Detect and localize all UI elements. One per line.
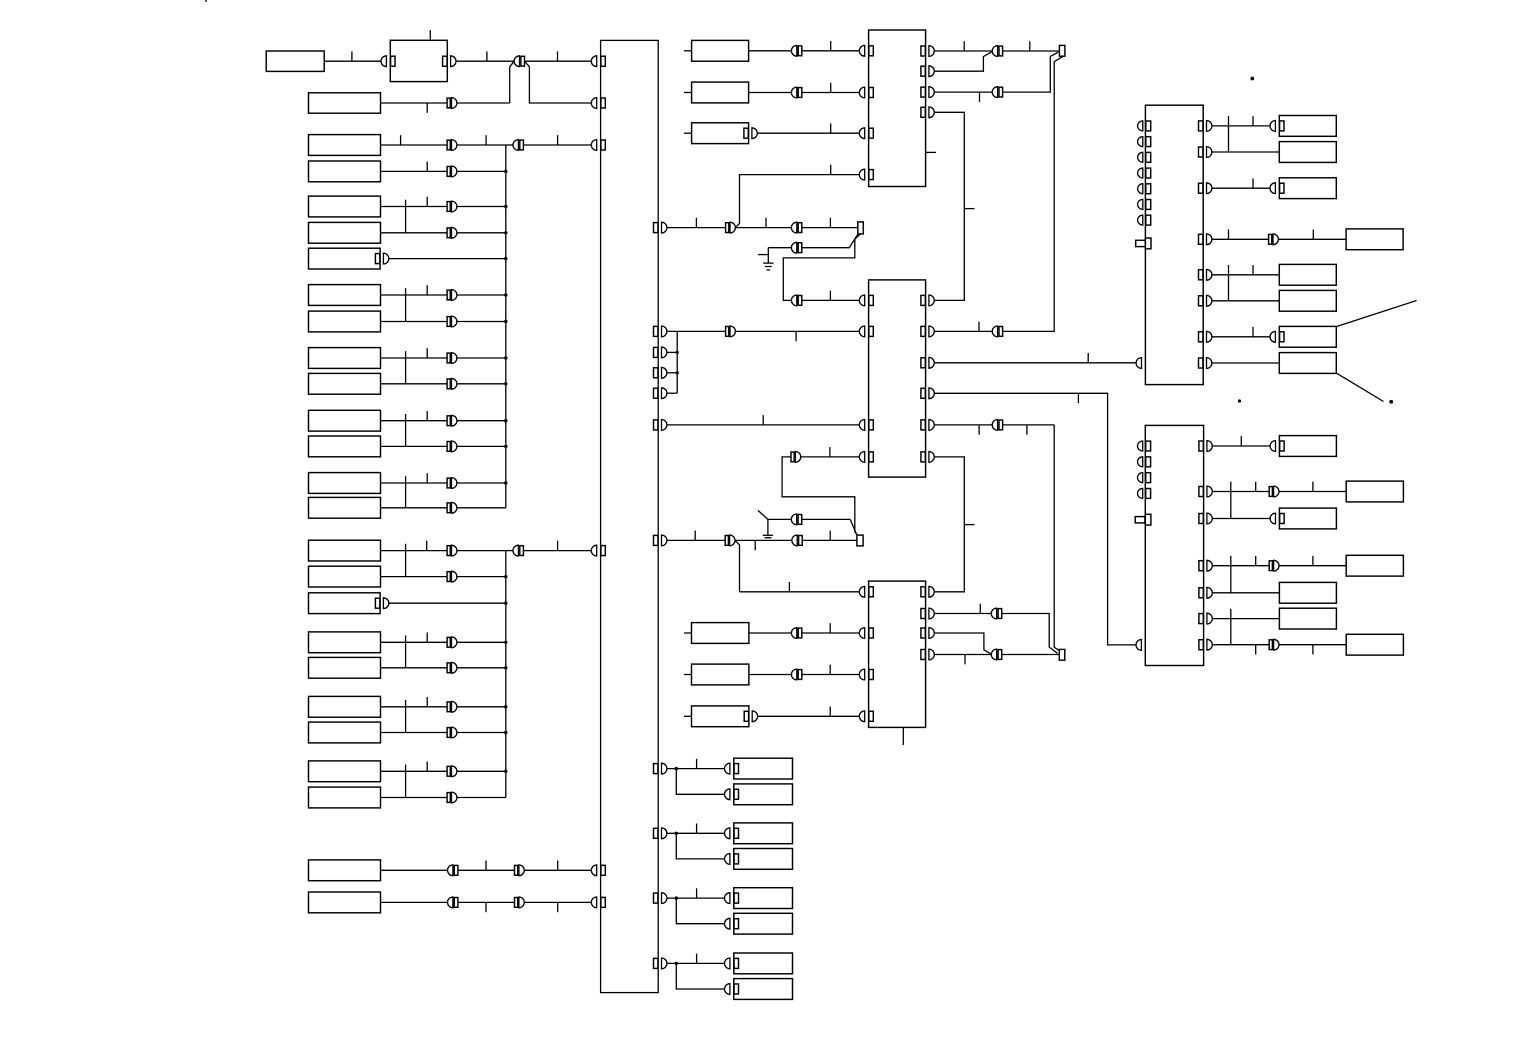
component box (lamp) xyxy=(734,979,793,1000)
pin U3 left xyxy=(859,711,864,722)
wire tick xyxy=(964,524,974,526)
wire tick xyxy=(696,954,698,964)
wire tick xyxy=(964,208,974,210)
wire pair-link xyxy=(405,351,407,384)
wire pair-link xyxy=(1228,116,1230,152)
pin U2 right xyxy=(921,388,925,398)
pin U3 left xyxy=(859,628,864,639)
connector block U4 xyxy=(1145,105,1203,384)
connector pair xyxy=(447,140,450,150)
wire xyxy=(389,258,506,260)
junction xyxy=(676,371,679,374)
wire xyxy=(381,482,448,484)
wire xyxy=(381,144,448,146)
wire xyxy=(667,962,725,964)
wire branch xyxy=(676,769,724,795)
wire tick xyxy=(400,135,402,145)
junction xyxy=(675,832,678,835)
wire xyxy=(457,797,506,799)
wire branch X1 left xyxy=(510,61,515,103)
wire xyxy=(1212,644,1269,646)
wire xyxy=(1212,618,1279,620)
wire tick xyxy=(1255,556,1257,566)
component box xyxy=(309,473,381,494)
pin U5 right xyxy=(1199,561,1203,571)
wire xyxy=(676,331,678,393)
connector pair xyxy=(447,317,450,327)
wire tick xyxy=(963,41,965,51)
wire tick xyxy=(426,411,428,421)
component box (lamp) xyxy=(734,784,793,805)
component box xyxy=(309,222,381,243)
wire stub xyxy=(684,674,692,676)
wire pair-link xyxy=(1228,265,1230,301)
pin J/B left xyxy=(591,897,596,908)
component box M3 xyxy=(692,123,749,144)
connector pair xyxy=(447,546,450,556)
wire xyxy=(934,654,991,656)
wire tick xyxy=(829,665,831,675)
wire xyxy=(934,613,991,615)
connector pair xyxy=(791,514,796,525)
splice S2b xyxy=(857,535,863,546)
wire tick xyxy=(485,861,487,871)
wire pair-link xyxy=(405,636,407,668)
wire tick xyxy=(695,218,697,228)
pin U2 right xyxy=(921,452,925,462)
pin J/B left xyxy=(591,865,596,876)
pin U2 right xyxy=(921,326,925,336)
pin U4 left 4 xyxy=(1138,168,1143,178)
wire xyxy=(381,732,448,734)
wire xyxy=(1278,238,1346,240)
wire xyxy=(457,706,506,708)
wire xyxy=(457,206,506,208)
pin U2 left xyxy=(859,452,864,463)
pin U5 right xyxy=(1199,640,1203,650)
wire tick xyxy=(485,135,487,145)
connector pair xyxy=(448,897,453,908)
junction xyxy=(504,419,507,422)
pin J/B right xyxy=(654,420,658,430)
wire xyxy=(1003,50,1060,52)
pin U5 right xyxy=(1199,588,1203,598)
wire xyxy=(523,144,591,146)
ECU box U2 xyxy=(869,280,926,477)
splice S1 xyxy=(1059,45,1065,56)
wire xyxy=(768,247,791,249)
wire stub U1 right xyxy=(926,151,936,153)
wire xyxy=(1212,300,1279,302)
component box xyxy=(309,161,381,182)
wire tick xyxy=(762,415,764,425)
wire tick xyxy=(1252,327,1254,337)
wire xyxy=(1054,425,1059,651)
connector pair xyxy=(791,242,796,253)
junction xyxy=(504,170,507,173)
junction xyxy=(504,481,507,484)
wire xyxy=(801,456,860,458)
pin U5 left 3 xyxy=(1138,473,1143,483)
wire xyxy=(458,901,515,903)
wire tick xyxy=(351,51,353,61)
pin lamp left xyxy=(724,984,729,995)
component box (lamp) xyxy=(734,823,793,844)
component box xyxy=(1346,481,1403,502)
wire pair-link xyxy=(405,476,407,508)
wire stub xyxy=(684,50,692,52)
pin lamp left xyxy=(725,854,730,865)
connector pair xyxy=(791,222,796,233)
pin U4 right xyxy=(1199,332,1203,342)
pin U1 right xyxy=(921,87,925,97)
junction xyxy=(504,257,507,260)
wire pair-link xyxy=(405,200,407,233)
wire tick xyxy=(758,254,768,256)
component box xyxy=(1279,353,1336,374)
connector pair xyxy=(791,669,796,680)
wire xyxy=(457,420,506,422)
component box M1 xyxy=(692,40,749,61)
wire tick xyxy=(557,902,559,912)
wire xyxy=(934,112,964,300)
wire xyxy=(457,770,506,772)
wire xyxy=(757,132,859,134)
wire xyxy=(802,674,860,676)
wire xyxy=(381,667,448,669)
pin U4 right xyxy=(1199,183,1203,193)
pin J/B right xyxy=(654,893,658,903)
wire branch X1 right xyxy=(525,61,592,103)
wire branch S1-a xyxy=(1003,52,1059,92)
connector pair xyxy=(447,416,450,426)
pin U5 right xyxy=(1199,441,1203,451)
wire xyxy=(457,321,506,323)
pin load left xyxy=(1270,121,1275,132)
component box B2 (relay) xyxy=(390,40,447,81)
wire tick xyxy=(1312,556,1314,566)
wire tick xyxy=(426,348,428,358)
connector pair X1 xyxy=(514,56,519,67)
junction xyxy=(504,293,507,296)
wire xyxy=(457,357,506,359)
terminal stub U5 left xyxy=(1135,517,1145,523)
wire collector xyxy=(505,551,507,798)
pin U2 right xyxy=(921,295,925,305)
component box xyxy=(309,657,381,678)
connector pair xyxy=(447,572,450,582)
component box xyxy=(1279,264,1336,285)
component box (lamp) xyxy=(734,953,793,974)
pin U5 left xyxy=(1136,640,1141,651)
wire xyxy=(735,175,859,228)
component box xyxy=(1279,436,1336,457)
connector pair xyxy=(1269,234,1272,244)
pin U4 right xyxy=(1199,147,1203,157)
wire tick xyxy=(426,162,428,172)
connector pair xyxy=(447,702,450,712)
wire xyxy=(667,768,725,770)
junction xyxy=(504,231,507,234)
connector pair xyxy=(447,379,450,389)
wire branch xyxy=(735,540,740,591)
splice S2 xyxy=(858,222,864,234)
component box xyxy=(1279,116,1336,137)
connector pair xyxy=(447,766,450,776)
wire tick xyxy=(486,51,488,61)
wire xyxy=(802,539,857,541)
wire xyxy=(381,420,448,422)
pin U2 right xyxy=(921,358,925,368)
wire xyxy=(1212,362,1279,364)
wire tick xyxy=(829,707,831,717)
pin lamp left xyxy=(725,763,730,774)
dot marker xyxy=(1238,399,1241,402)
wire tick xyxy=(1255,645,1257,655)
wire stub xyxy=(684,92,692,94)
component box xyxy=(1279,142,1336,163)
connector pair xyxy=(791,87,796,98)
wire xyxy=(381,507,448,509)
component box B1 xyxy=(266,51,324,71)
wire tick xyxy=(557,135,559,145)
wire xyxy=(1279,491,1346,493)
pin B2 right xyxy=(443,56,447,66)
wire xyxy=(457,507,506,509)
wire xyxy=(1212,125,1270,127)
component box (lamp) xyxy=(734,849,793,870)
pin U3 right xyxy=(921,609,925,619)
wire xyxy=(749,92,792,94)
pin U1 left xyxy=(859,45,864,56)
wire branch into S2b xyxy=(850,519,857,535)
wire tick xyxy=(765,218,767,228)
wire xyxy=(667,424,859,426)
component box xyxy=(309,410,381,431)
pin J/B left row B xyxy=(591,98,596,109)
wire stub xyxy=(684,132,692,134)
wire xyxy=(381,797,448,799)
wire xyxy=(457,550,506,552)
connector pair xyxy=(447,290,450,300)
connector pair xyxy=(447,728,450,738)
wire tick xyxy=(426,762,428,772)
component box xyxy=(1279,326,1336,347)
component box xyxy=(1279,508,1336,529)
wire tick xyxy=(426,473,428,483)
pin U5 left 4 xyxy=(1138,488,1143,498)
component box xyxy=(309,348,381,369)
wire tick xyxy=(829,447,831,457)
wire xyxy=(457,232,506,234)
component box xyxy=(1279,290,1336,311)
wire tick xyxy=(557,861,559,871)
wire tick xyxy=(964,655,966,665)
pin J/B right xyxy=(654,535,658,545)
pin U1 right xyxy=(921,46,925,56)
wire xyxy=(381,576,448,578)
pin U1 left xyxy=(859,128,864,139)
pin box right xyxy=(375,254,379,264)
ECU box U3 xyxy=(869,581,926,727)
wire xyxy=(458,869,515,871)
wire pair-link xyxy=(1230,482,1232,519)
wire tick xyxy=(1029,41,1031,51)
component box xyxy=(1279,178,1336,199)
pin U2 right xyxy=(921,420,925,430)
pin U1 left xyxy=(859,87,864,98)
component box xyxy=(1346,555,1403,576)
component box xyxy=(309,761,381,782)
pin U4 left 2 xyxy=(1138,137,1143,147)
junction xyxy=(504,382,507,385)
pin lamp left xyxy=(725,828,730,839)
wire tick xyxy=(1087,353,1089,363)
wire xyxy=(1212,491,1269,493)
wire xyxy=(767,519,769,535)
wire stub xyxy=(684,632,692,634)
splice S3 xyxy=(1059,649,1065,660)
wire xyxy=(457,576,506,578)
dot marker xyxy=(1389,400,1393,404)
wire xyxy=(667,897,725,899)
wire xyxy=(457,482,506,484)
component box xyxy=(309,860,381,881)
ground G2 xyxy=(763,534,773,536)
wire tick xyxy=(1077,393,1079,403)
pin U3 right xyxy=(921,628,925,638)
wire tick xyxy=(1252,178,1254,188)
wire tick xyxy=(829,623,831,633)
component box xyxy=(309,373,381,394)
junction xyxy=(504,602,507,605)
junction xyxy=(504,320,507,323)
component box (switch) xyxy=(309,248,381,269)
wire tick xyxy=(830,41,832,51)
wire xyxy=(1212,187,1270,189)
connector pair xyxy=(791,628,796,639)
wire xyxy=(381,357,448,359)
wire xyxy=(802,299,860,301)
connector pair xyxy=(791,295,796,306)
connector pair xyxy=(447,167,450,177)
component box xyxy=(309,696,381,717)
pin U4 right xyxy=(1199,234,1203,244)
wire xyxy=(1279,565,1346,567)
connector pair xyxy=(447,442,450,452)
wire xyxy=(934,393,1136,645)
junction xyxy=(676,351,679,354)
component box xyxy=(1279,582,1336,603)
wire pair-link xyxy=(405,288,407,321)
wire xyxy=(381,383,448,385)
component box xyxy=(309,497,381,518)
component box xyxy=(309,722,381,743)
wire tick xyxy=(426,697,428,707)
wire xyxy=(524,901,591,903)
connector pair xyxy=(447,503,450,513)
wire xyxy=(457,102,510,104)
wire xyxy=(1279,644,1346,646)
component box xyxy=(1346,634,1403,655)
wire tick xyxy=(829,218,831,228)
pin J/B left xyxy=(591,545,596,556)
component box (lamp) xyxy=(734,888,793,909)
connector pair xyxy=(991,608,996,619)
wire tick xyxy=(557,51,559,61)
connector pair xyxy=(726,223,729,233)
wire xyxy=(457,641,506,643)
component box M4 xyxy=(692,623,749,644)
component box M5 xyxy=(692,664,749,685)
wire tick xyxy=(426,285,428,295)
pin J/B left row A xyxy=(591,56,596,67)
pin J/B right xyxy=(654,958,658,968)
pin U4 right xyxy=(1199,296,1203,306)
wire xyxy=(389,602,506,604)
wire xyxy=(667,392,677,394)
wire tick xyxy=(1228,230,1230,240)
wire xyxy=(1002,614,1058,654)
dot marker xyxy=(1250,77,1254,81)
wire xyxy=(1003,424,1055,426)
connector pair xyxy=(1269,640,1272,650)
wire tick xyxy=(426,103,428,113)
pin lamp left xyxy=(725,893,730,904)
wire xyxy=(457,445,506,447)
component box xyxy=(309,436,381,457)
pin U4 left 3 xyxy=(1138,152,1143,162)
pin load left xyxy=(1270,513,1275,524)
connector pair xyxy=(725,536,728,546)
component box xyxy=(309,787,381,808)
wire tick xyxy=(1312,230,1314,240)
component box xyxy=(309,540,381,561)
wire tick xyxy=(1252,265,1254,275)
pin box right xyxy=(375,598,379,608)
wire tick xyxy=(696,759,698,769)
wire tick xyxy=(1312,645,1314,655)
wire stub top-left xyxy=(205,0,207,2)
wire xyxy=(1212,518,1270,520)
junction xyxy=(675,962,678,965)
wire xyxy=(667,330,726,332)
wire xyxy=(767,248,769,263)
leader line xyxy=(1337,373,1384,401)
wire xyxy=(782,457,857,535)
junction block J/B xyxy=(601,40,659,992)
wire xyxy=(934,362,1136,364)
wire tick xyxy=(1252,116,1254,126)
component box (lamp) xyxy=(734,758,793,779)
wire xyxy=(457,732,506,734)
connector pair xyxy=(513,140,518,151)
junction xyxy=(675,767,678,770)
wire tick xyxy=(696,888,698,898)
pin J/B right xyxy=(654,368,658,378)
wire xyxy=(381,102,448,104)
pin M6 right xyxy=(744,711,748,721)
wire xyxy=(457,667,506,669)
wire xyxy=(735,227,791,229)
pin J/B right xyxy=(654,326,658,336)
connector pair xyxy=(515,898,518,908)
component box xyxy=(309,566,381,587)
wire xyxy=(802,518,851,520)
pin U1 left xyxy=(859,169,864,180)
wire pair-link xyxy=(1230,556,1232,593)
component box xyxy=(309,196,381,217)
